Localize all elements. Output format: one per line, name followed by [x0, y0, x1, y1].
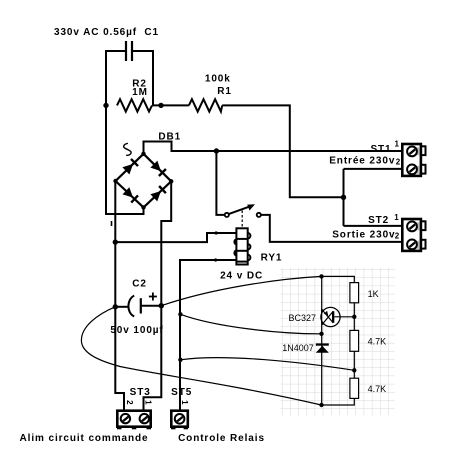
AC squiggle	[124, 143, 131, 155]
svg-text:2: 2	[125, 400, 134, 405]
curve wire D	[81, 307, 321, 405]
svg-text:Sortie 230v: Sortie 230v	[332, 229, 395, 240]
diode D-bottomleft	[123, 187, 139, 202]
wire ST2 top pin	[344, 225, 403, 227]
resistor R2	[117, 99, 152, 111]
svg-text:Controle Relais: Controle Relais	[178, 433, 265, 444]
wire R1 to ST link	[222, 105, 343, 197]
wire coil bottom to ST5	[180, 260, 236, 411]
svg-text:Alim circuit commande: Alim circuit commande	[20, 433, 149, 444]
svg-text:4.7K: 4.7K	[368, 384, 387, 394]
diode D-bottomright	[150, 186, 166, 201]
capacitor C1	[106, 41, 153, 105]
wire node B to R1	[152, 104, 189, 106]
transistor Q1 BC327	[321, 307, 354, 326]
svg-text:1M: 1M	[132, 87, 148, 98]
svg-text:1: 1	[180, 400, 189, 405]
relay coil RY1	[234, 228, 250, 264]
svg-text:2: 2	[395, 232, 400, 241]
svg-text:4.7K: 4.7K	[368, 337, 387, 347]
svg-text:1N4007: 1N4007	[282, 343, 314, 353]
resistor R1	[189, 99, 222, 111]
svg-text:RY1: RY1	[261, 252, 283, 263]
connector ST3	[117, 411, 151, 430]
svg-text:1: 1	[395, 140, 400, 149]
tick mark	[111, 221, 113, 226]
svg-text:2: 2	[396, 157, 401, 166]
wire ST1 bottom pin	[344, 168, 403, 170]
svg-text:24 v DC: 24 v DC	[220, 270, 263, 281]
curve wire C	[180, 358, 354, 371]
diode 1N4007	[316, 343, 329, 352]
wire bottom rail	[321, 398, 354, 405]
bridge DB1	[116, 154, 172, 208]
wire coil branch top	[115, 233, 236, 242]
svg-text:330v AC 0.56µf C1: 330v AC 0.56µf C1	[54, 27, 159, 38]
connector ST5	[171, 411, 188, 430]
wire switch drop	[216, 151, 224, 215]
svg-text:1K: 1K	[368, 289, 379, 299]
svg-text:1: 1	[394, 213, 399, 222]
svg-text:Entrée 230v: Entrée 230v	[329, 155, 395, 166]
svg-text:100k: 100k	[205, 74, 231, 85]
connector ST1	[402, 144, 425, 176]
curve wire A	[161, 276, 321, 305]
svg-text:ST2: ST2	[368, 215, 389, 226]
wire DB1 to ST1 rail	[144, 142, 403, 154]
svg-text:R1: R1	[217, 86, 232, 97]
diode D-topright	[150, 161, 166, 176]
svg-text:1: 1	[144, 400, 153, 405]
wire rail B left vertex to ST3 pin2	[115, 181, 124, 411]
connector ST2	[402, 219, 425, 251]
svg-text:BC327: BC327	[288, 313, 316, 323]
resistor 1K	[350, 283, 359, 303]
wire switch to ST2 bottom pin	[261, 215, 402, 242]
svg-text:50v 100µf: 50v 100µf	[110, 325, 163, 336]
wire resistor chain	[353, 303, 355, 331]
wire left rail to bridge bottom	[106, 105, 144, 214]
svg-text:ST1: ST1	[370, 144, 391, 155]
svg-text:ST3: ST3	[130, 387, 151, 398]
svg-text:DB1: DB1	[158, 131, 181, 142]
wire ST1-ST2 link	[343, 169, 345, 226]
wire collector line	[321, 276, 323, 405]
wire bridge right vertex to ST3 pin1	[144, 181, 172, 410]
resistor 4.7K lower	[350, 378, 359, 398]
diode D-topleft	[122, 159, 138, 175]
wire top rail transistor area	[321, 276, 354, 282]
capacitor C2	[115, 293, 161, 317]
svg-text:C2: C2	[132, 279, 147, 290]
curve wire B	[180, 314, 321, 334]
switch SW lever	[225, 204, 261, 227]
resistor 4.7K upper	[350, 330, 359, 351]
svg-text:ST5: ST5	[171, 387, 192, 398]
